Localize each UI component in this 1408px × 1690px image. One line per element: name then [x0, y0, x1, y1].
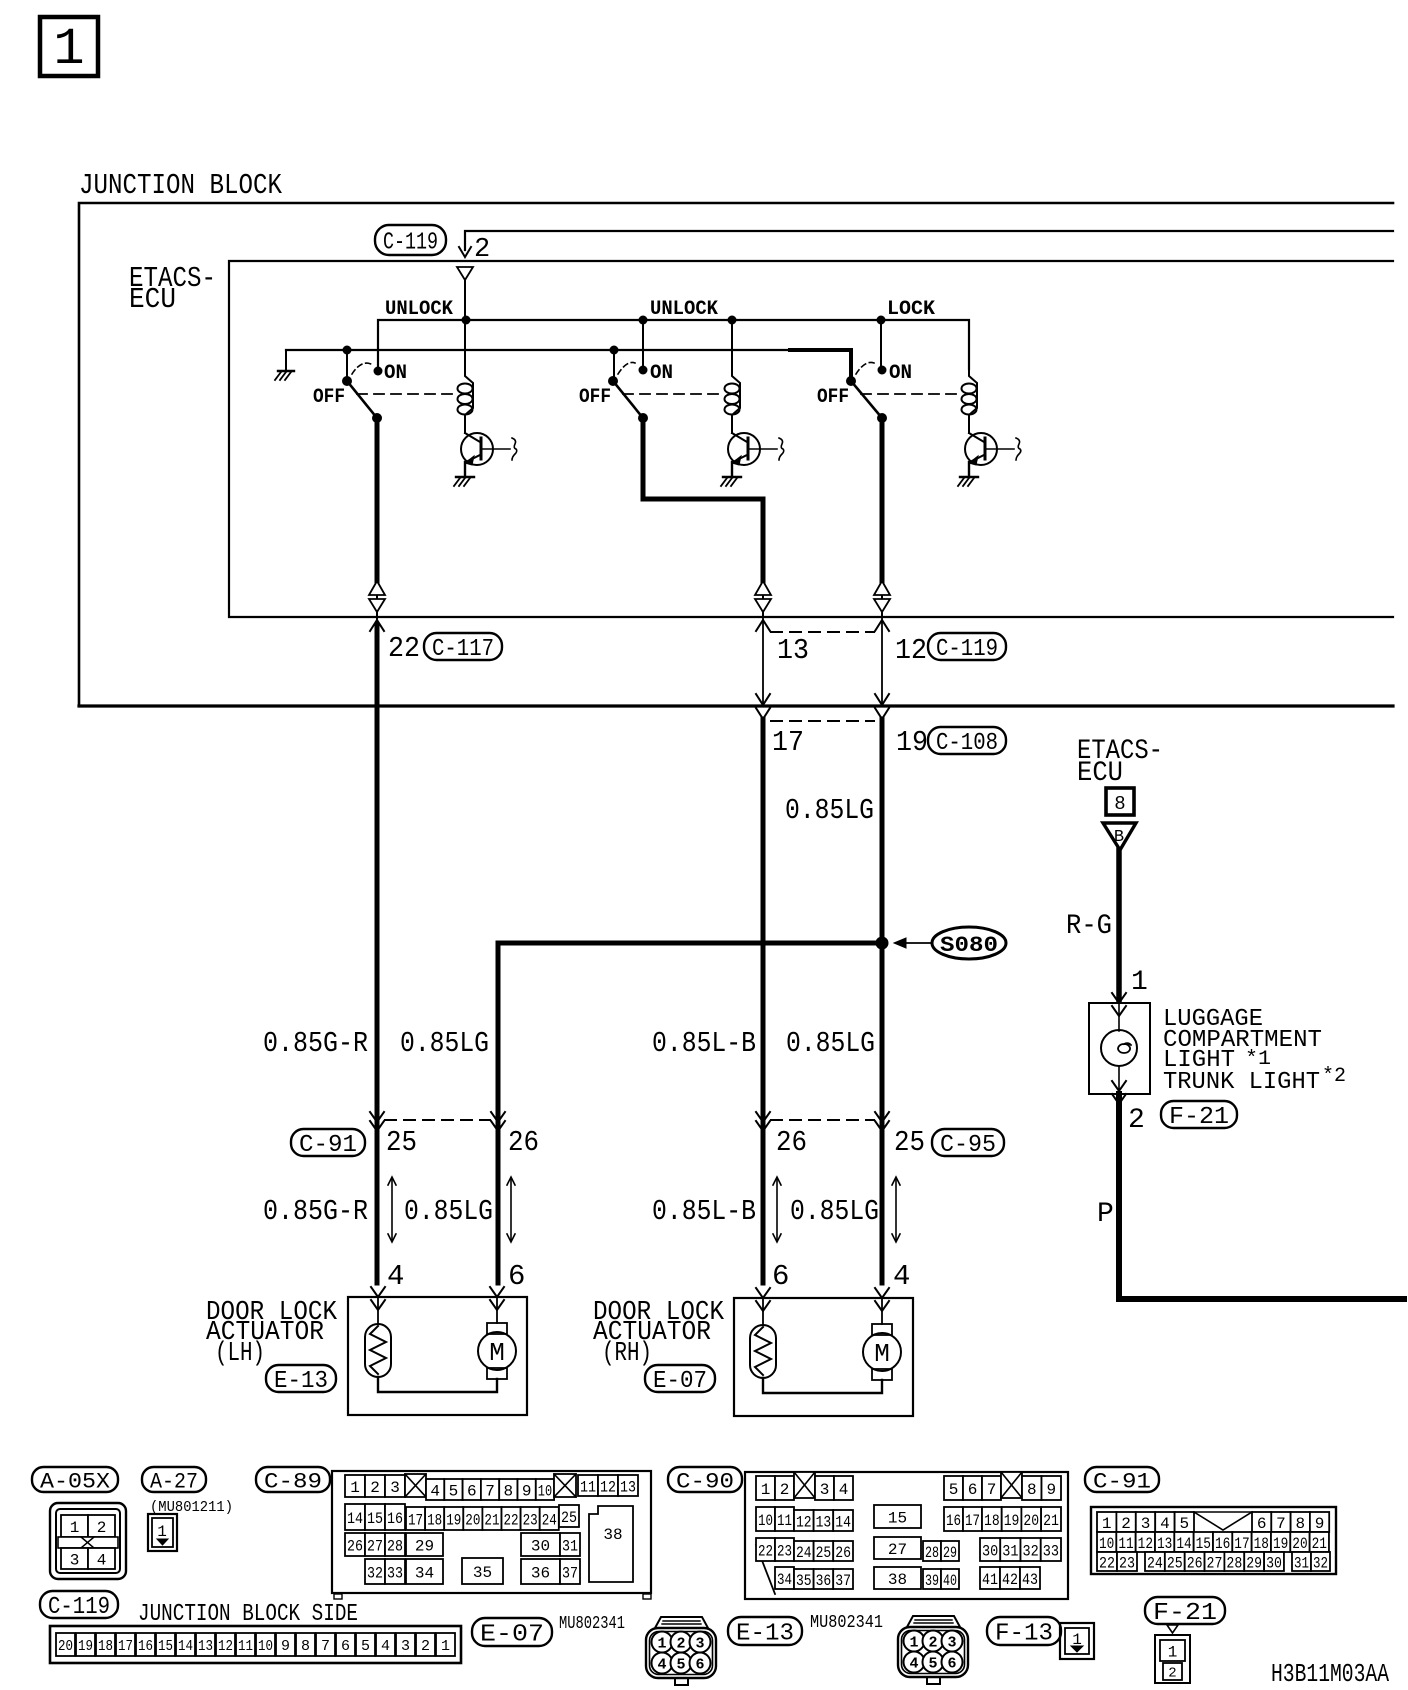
entry chevrons right [490, 1287, 504, 1310]
connector chevrons x=763 [756, 1112, 770, 1131]
svg-text:C-95: C-95 [940, 1132, 996, 1159]
svg-text:7: 7 [987, 1481, 997, 1499]
svg-text:7: 7 [321, 1638, 330, 1655]
connector A-05X face view [50, 1503, 126, 1579]
svg-text:25: 25 [386, 1126, 417, 1159]
wire: solenoid-motor link (RH) [763, 1378, 882, 1393]
wire: ON contact drop circuit3 [880, 320, 882, 370]
ground (Q2) [721, 477, 741, 486]
svg-text:41: 41 [982, 1571, 998, 1589]
svg-text:H3B11M03AA: H3B11M03AA [1271, 1659, 1389, 1689]
svg-text:9: 9 [522, 1482, 532, 1500]
svg-text:17: 17 [408, 1511, 423, 1529]
svg-text:16: 16 [387, 1510, 403, 1528]
svg-text:1: 1 [350, 1479, 360, 1497]
svg-text:21: 21 [1312, 1535, 1327, 1553]
svg-text:29: 29 [943, 1544, 957, 1562]
svg-text:JUNCTION BLOCK: JUNCTION BLOCK [79, 169, 282, 202]
svg-text:1: 1 [70, 1519, 80, 1537]
wire: 0.85G-R run (pin22 to LH actuator) [375, 626, 380, 1283]
pin 13 exit chevron [756, 617, 770, 705]
switch S2 ON contact [618, 362, 648, 374]
svg-text:A-27: A-27 [150, 1469, 198, 1494]
connector C-89 label [256, 1467, 330, 1492]
svg-text:12: 12 [895, 634, 927, 667]
svg-text:25: 25 [894, 1126, 925, 1159]
svg-text:38: 38 [888, 1571, 907, 1589]
svg-text:34: 34 [415, 1564, 434, 1582]
svg-text:0.85G-R: 0.85G-R [263, 1195, 368, 1228]
svg-text:19: 19 [896, 726, 928, 759]
svg-text:1: 1 [761, 1481, 771, 1499]
svg-text:38: 38 [603, 1526, 622, 1544]
connector F-21 face view [1155, 1625, 1190, 1683]
svg-text:1: 1 [1131, 967, 1148, 998]
wire: switch1 drop [346, 350, 348, 378]
svg-text:8: 8 [1114, 793, 1125, 815]
svg-text:15: 15 [888, 1509, 907, 1527]
svg-text:12: 12 [1138, 1535, 1153, 1553]
svg-text:26: 26 [347, 1537, 363, 1555]
svg-text:0.85LG: 0.85LG [404, 1195, 493, 1228]
svg-text:ON: ON [889, 362, 912, 385]
connector E-07 label (bottom) [472, 1618, 552, 1646]
svg-text:21: 21 [484, 1511, 499, 1529]
svg-text:C-91: C-91 [299, 1132, 357, 1159]
wire: ON contact drop circuit2 [642, 320, 644, 370]
svg-text:4: 4 [430, 1482, 440, 1500]
wire: coil2 feed drop [731, 320, 733, 369]
updown arrow w1 [391, 1179, 393, 1240]
connector pass-through triangles at x=763 [755, 581, 771, 617]
svg-text:16: 16 [1215, 1535, 1230, 1553]
svg-text:19: 19 [1273, 1535, 1288, 1553]
svg-text:2: 2 [421, 1638, 430, 1655]
svg-text:3: 3 [695, 1636, 704, 1653]
svg-text:A-05X: A-05X [40, 1469, 110, 1494]
svg-text:1: 1 [1168, 1643, 1178, 1661]
node S080 splice [876, 937, 889, 950]
updown arrow w2 [510, 1179, 512, 1240]
svg-text:17: 17 [1234, 1535, 1249, 1553]
svg-text:30: 30 [982, 1542, 998, 1560]
page number box 1 [40, 17, 98, 79]
wire: pin22 lead [376, 617, 378, 628]
svg-text:24: 24 [1147, 1554, 1163, 1572]
svg-text:0.85L-B: 0.85L-B [652, 1195, 756, 1228]
svg-text:F-13: F-13 [995, 1621, 1053, 1648]
svg-text:3: 3 [390, 1479, 400, 1497]
svg-text:1: 1 [1102, 1515, 1112, 1533]
connector C-119 label (top) [375, 225, 446, 255]
svg-text:28: 28 [1226, 1554, 1242, 1572]
svg-text:29: 29 [415, 1537, 434, 1555]
wire: unlock2 output jog [643, 418, 763, 581]
wire: coil L1 to transistor [464, 415, 466, 433]
svg-text:32: 32 [1313, 1554, 1328, 1572]
svg-text:2: 2 [676, 1636, 685, 1653]
svg-text:3: 3 [401, 1638, 410, 1655]
switch S1 ON contact [352, 363, 383, 375]
svg-text:5: 5 [361, 1638, 370, 1655]
svg-text:19: 19 [1004, 1512, 1020, 1530]
svg-text:37: 37 [835, 1572, 851, 1590]
svg-text:M: M [489, 1338, 505, 1368]
connector E-13 face view [898, 1616, 968, 1684]
svg-text:6: 6 [968, 1481, 978, 1499]
connector C-90 face view [745, 1472, 1068, 1599]
svg-text:15: 15 [158, 1638, 173, 1655]
svg-text:2: 2 [370, 1479, 380, 1497]
svg-text:33: 33 [1043, 1542, 1059, 1560]
svg-text:ON: ON [650, 362, 673, 385]
connector C-89 face view [332, 1471, 651, 1599]
mechanical link S3 to coil [861, 393, 961, 395]
svg-text:25: 25 [1167, 1554, 1183, 1572]
svg-text:16: 16 [138, 1638, 153, 1655]
svg-text:2: 2 [928, 1635, 937, 1652]
svg-text:TRUNK LIGHT: TRUNK LIGHT [1163, 1069, 1320, 1096]
svg-text:C-89: C-89 [264, 1469, 322, 1494]
connector C-95 label [932, 1129, 1004, 1156]
luggage compartment light [1089, 1003, 1150, 1094]
svg-text:15: 15 [367, 1510, 383, 1528]
dashed connector line 26-25 (C-95) [771, 1119, 874, 1121]
svg-text:11: 11 [777, 1512, 792, 1530]
node: switch2 top [610, 346, 619, 355]
connector pass-through triangles at x=377 [369, 581, 385, 617]
ETACS-ECU label (right) [1077, 736, 1163, 789]
svg-text:18: 18 [1254, 1535, 1269, 1553]
svg-text:18: 18 [984, 1512, 1000, 1530]
transistor Q2 [728, 433, 784, 465]
svg-text:17: 17 [118, 1638, 133, 1655]
svg-text:1: 1 [157, 1523, 167, 1541]
svg-text:8: 8 [1295, 1515, 1305, 1533]
svg-text:UNLOCK: UNLOCK [385, 298, 453, 321]
svg-text:OFF: OFF [579, 386, 611, 409]
svg-text:37: 37 [562, 1564, 578, 1582]
ground (switch bus) [275, 350, 294, 380]
connector pass-through triangle [457, 267, 473, 280]
svg-text:22: 22 [1099, 1554, 1115, 1572]
transistor Q1 [461, 433, 517, 465]
svg-text:14: 14 [347, 1510, 363, 1528]
svg-text:24: 24 [796, 1544, 812, 1562]
svg-text:1: 1 [441, 1638, 450, 1655]
svg-text:1: 1 [657, 1636, 666, 1653]
motor M (LH) [478, 1297, 516, 1379]
svg-text:34: 34 [777, 1571, 792, 1589]
luggage light text labels [1163, 1006, 1346, 1096]
connector C-119 label (middle) [928, 633, 1006, 660]
wire: Q2 emitter to ground [731, 462, 733, 477]
ETACS pin 8 box [1106, 788, 1134, 815]
svg-text:E-07: E-07 [653, 1368, 707, 1395]
svg-text:22: 22 [504, 1511, 519, 1529]
svg-text:18: 18 [98, 1638, 113, 1655]
svg-text:7: 7 [1276, 1515, 1286, 1533]
junction block box [79, 203, 1393, 706]
connector E-07 face view [646, 1617, 716, 1685]
svg-text:14: 14 [1176, 1535, 1191, 1553]
wire: 0.85L-B run (pin17 to RH actuator) [761, 719, 766, 1283]
wire: coil L2 to transistor [731, 415, 733, 433]
svg-text:43: 43 [1022, 1571, 1038, 1589]
svg-text:11: 11 [238, 1638, 253, 1655]
connector E-13 label (bottom) [728, 1617, 802, 1645]
svg-text:E-13: E-13 [274, 1368, 328, 1395]
svg-text:26: 26 [835, 1544, 851, 1562]
ground (Q3) [958, 477, 978, 486]
splice S080 label [932, 927, 1006, 959]
svg-text:C-119: C-119 [383, 230, 438, 257]
svg-text:JUNCTION BLOCK SIDE: JUNCTION BLOCK SIDE [138, 1601, 358, 1628]
svg-text:24: 24 [542, 1511, 557, 1529]
dashed connector line 13-12 [771, 631, 874, 633]
svg-text:30: 30 [1266, 1554, 1282, 1572]
wire P [1119, 1094, 1404, 1299]
svg-text:15: 15 [1196, 1535, 1211, 1553]
svg-text:3: 3 [820, 1481, 830, 1499]
node: bus junction lock [877, 316, 886, 325]
wire: UNLOCK/LOCK supply bus [378, 320, 969, 371]
wire: unlock1 output (pin 22) [375, 418, 380, 581]
wire: Q1 emitter to ground [464, 462, 466, 477]
wire: coil1 feed drop [464, 320, 466, 369]
svg-text:18: 18 [427, 1511, 442, 1529]
svg-text:7: 7 [485, 1482, 495, 1500]
svg-text:4: 4 [387, 1260, 404, 1293]
svg-text:16: 16 [946, 1512, 961, 1530]
svg-text:22: 22 [388, 632, 420, 665]
svg-text:0.85LG: 0.85LG [400, 1027, 489, 1060]
svg-text:20: 20 [1023, 1512, 1039, 1530]
svg-text:6: 6 [341, 1638, 350, 1655]
svg-text:39: 39 [925, 1572, 939, 1590]
svg-text:19: 19 [446, 1511, 461, 1529]
svg-text:(RH): (RH) [602, 1339, 652, 1369]
svg-text:17: 17 [965, 1512, 980, 1530]
svg-text:LOCK: LOCK [887, 298, 935, 321]
svg-text:23: 23 [1119, 1554, 1135, 1572]
connector C-91 face view [1091, 1507, 1336, 1574]
svg-text:C-108: C-108 [936, 730, 998, 757]
svg-text:29: 29 [1246, 1554, 1262, 1572]
svg-text:26: 26 [776, 1126, 807, 1159]
svg-text:27: 27 [367, 1537, 383, 1555]
svg-text:32: 32 [1023, 1542, 1039, 1560]
connector C-91 label (middle) [291, 1129, 365, 1156]
dashed connector line 17-19 [771, 720, 874, 722]
svg-text:E-07: E-07 [480, 1622, 544, 1649]
connector chevrons x=498 [491, 1112, 505, 1131]
svg-text:6: 6 [772, 1260, 789, 1293]
svg-text:12: 12 [796, 1513, 812, 1531]
pin 12 exit chevron [875, 617, 889, 705]
svg-text:C-90: C-90 [676, 1469, 734, 1494]
svg-text:31: 31 [1294, 1554, 1309, 1572]
svg-text:0.85LG: 0.85LG [786, 1027, 875, 1060]
svg-text:19: 19 [78, 1638, 93, 1655]
svg-text:30: 30 [531, 1537, 550, 1555]
svg-text:11: 11 [1118, 1535, 1133, 1553]
updown arrow w3 [776, 1179, 778, 1240]
svg-text:31: 31 [1002, 1542, 1018, 1560]
connector B triangle [1103, 823, 1136, 850]
mechanical link S1 to coil [357, 393, 457, 395]
svg-text:5: 5 [1179, 1515, 1189, 1533]
relay coil L2 [725, 369, 741, 415]
svg-text:27: 27 [888, 1541, 907, 1559]
svg-text:2: 2 [1128, 1105, 1145, 1136]
node: bus junction coil2 [728, 316, 737, 325]
svg-text:26: 26 [1187, 1554, 1203, 1572]
svg-text:E-13: E-13 [736, 1621, 794, 1648]
svg-text:14: 14 [835, 1513, 851, 1531]
connector C-119 label (bottom) [40, 1591, 118, 1618]
svg-text:9: 9 [281, 1638, 290, 1655]
svg-text:23: 23 [777, 1542, 792, 1560]
svg-text:36: 36 [531, 1564, 550, 1582]
svg-text:C-91: C-91 [1093, 1469, 1151, 1494]
svg-text:*1: *1 [1245, 1048, 1271, 1071]
svg-text:10: 10 [1099, 1535, 1114, 1553]
svg-text:4: 4 [839, 1481, 849, 1499]
svg-text:10: 10 [258, 1638, 273, 1655]
entry chevrons left [756, 1288, 770, 1311]
svg-text:8: 8 [301, 1638, 310, 1655]
wire: 0.85LG run (pin19 through S080) [880, 719, 885, 1283]
svg-text:1: 1 [909, 1635, 918, 1652]
connector A-05X label [32, 1467, 118, 1492]
switch S2 [608, 376, 648, 423]
solenoid coil (RH) [750, 1298, 776, 1378]
svg-text:0.85L-B: 0.85L-B [652, 1027, 756, 1060]
svg-text:R-G: R-G [1066, 911, 1112, 942]
svg-text:3: 3 [70, 1551, 80, 1569]
svg-text:28: 28 [925, 1544, 939, 1562]
motor M (RH) [863, 1298, 901, 1380]
svg-text:0.85LG: 0.85LG [790, 1195, 879, 1228]
svg-text:25: 25 [561, 1509, 577, 1527]
entry chevrons luggage light [1112, 993, 1126, 1016]
svg-text:6: 6 [508, 1260, 525, 1293]
svg-text:ECU: ECU [1077, 758, 1123, 789]
svg-text:2: 2 [474, 235, 490, 265]
connector A-27 face view [148, 1514, 177, 1551]
svg-text:13: 13 [816, 1513, 832, 1531]
door lock actuator RH box [734, 1298, 913, 1416]
connector E-13 label [266, 1365, 336, 1392]
actuator LH text labels [206, 1298, 338, 1369]
svg-text:42: 42 [1002, 1571, 1018, 1589]
svg-text:C-119: C-119 [936, 636, 998, 663]
svg-text:6: 6 [695, 1657, 704, 1674]
svg-text:B: B [1114, 828, 1124, 847]
svg-text:4: 4 [893, 1260, 910, 1293]
svg-text:S080: S080 [940, 933, 998, 958]
switch S3 ON contact [856, 362, 887, 374]
svg-text:5: 5 [676, 1657, 685, 1674]
relay coil L3 [962, 369, 978, 415]
svg-text:5: 5 [449, 1482, 459, 1500]
updown arrow w4 [895, 1179, 897, 1240]
svg-text:2: 2 [1168, 1666, 1176, 1682]
node: switch1 top [343, 346, 352, 355]
svg-text:5: 5 [949, 1481, 959, 1499]
svg-text:22: 22 [758, 1542, 773, 1560]
svg-text:27: 27 [1207, 1554, 1223, 1572]
solenoid coil (LH) [365, 1297, 391, 1377]
exit chevrons luggage light [1112, 1081, 1126, 1104]
connector C-90 label [668, 1467, 742, 1492]
wire: coil L3 to transistor [968, 415, 970, 433]
svg-text:9: 9 [1315, 1515, 1325, 1533]
svg-text:20: 20 [1292, 1535, 1307, 1553]
svg-text:(LH): (LH) [215, 1339, 265, 1369]
svg-text:17: 17 [772, 726, 804, 759]
ETACS-ECU label [129, 262, 216, 316]
svg-text:4: 4 [909, 1656, 918, 1673]
connector C-108 label [928, 727, 1006, 754]
svg-text:40: 40 [943, 1572, 957, 1590]
connector E-07 label [645, 1365, 715, 1392]
svg-text:20: 20 [58, 1638, 73, 1655]
svg-text:10: 10 [758, 1512, 773, 1530]
pin 22 exit chevron [370, 620, 384, 631]
wire: battery feed from C-119 pin 2 [459, 231, 1393, 257]
connector C-117 label [424, 633, 502, 660]
svg-text:MU802341: MU802341 [810, 1613, 883, 1633]
svg-text:3: 3 [947, 1635, 956, 1652]
svg-text:25: 25 [816, 1544, 832, 1562]
dashed connector line 25-26 (C-91) [385, 1119, 490, 1121]
svg-text:6: 6 [467, 1482, 477, 1500]
svg-text:35: 35 [473, 1564, 492, 1582]
splice pointer arrow [894, 938, 931, 948]
connector chevrons x=377 [370, 1112, 384, 1131]
svg-text:33: 33 [387, 1564, 403, 1582]
switch S3 [846, 376, 887, 423]
node: bus junction unlock2 [639, 316, 648, 325]
svg-text:10: 10 [538, 1482, 552, 1500]
svg-text:23: 23 [523, 1511, 538, 1529]
svg-text:0.85LG: 0.85LG [785, 794, 874, 827]
wire: solenoid-motor link (LH) [378, 1377, 497, 1392]
junction block exit marks x=882 [875, 694, 889, 719]
ETACS-ECU box [229, 261, 1393, 617]
door lock actuator LH box [348, 1297, 527, 1415]
svg-text:28: 28 [387, 1537, 403, 1555]
wire R-G [1116, 850, 1122, 1000]
entry chevrons right [875, 1288, 889, 1311]
svg-text:F-21: F-21 [1169, 1104, 1229, 1131]
wire: lock output (pin 12) [880, 418, 885, 581]
wire: switch2 drop [613, 350, 615, 378]
connector F-13 label [987, 1617, 1061, 1645]
ground (Q1) [454, 477, 474, 486]
svg-text:12: 12 [600, 1478, 616, 1496]
svg-text:OFF: OFF [817, 386, 849, 409]
svg-text:8: 8 [504, 1482, 514, 1500]
svg-text:5: 5 [928, 1656, 937, 1673]
svg-text:14: 14 [178, 1638, 193, 1655]
svg-text:UNLOCK: UNLOCK [650, 298, 718, 321]
svg-text:21: 21 [1043, 1512, 1059, 1530]
svg-text:12: 12 [218, 1638, 233, 1655]
connector F-13 face view [1060, 1623, 1094, 1659]
